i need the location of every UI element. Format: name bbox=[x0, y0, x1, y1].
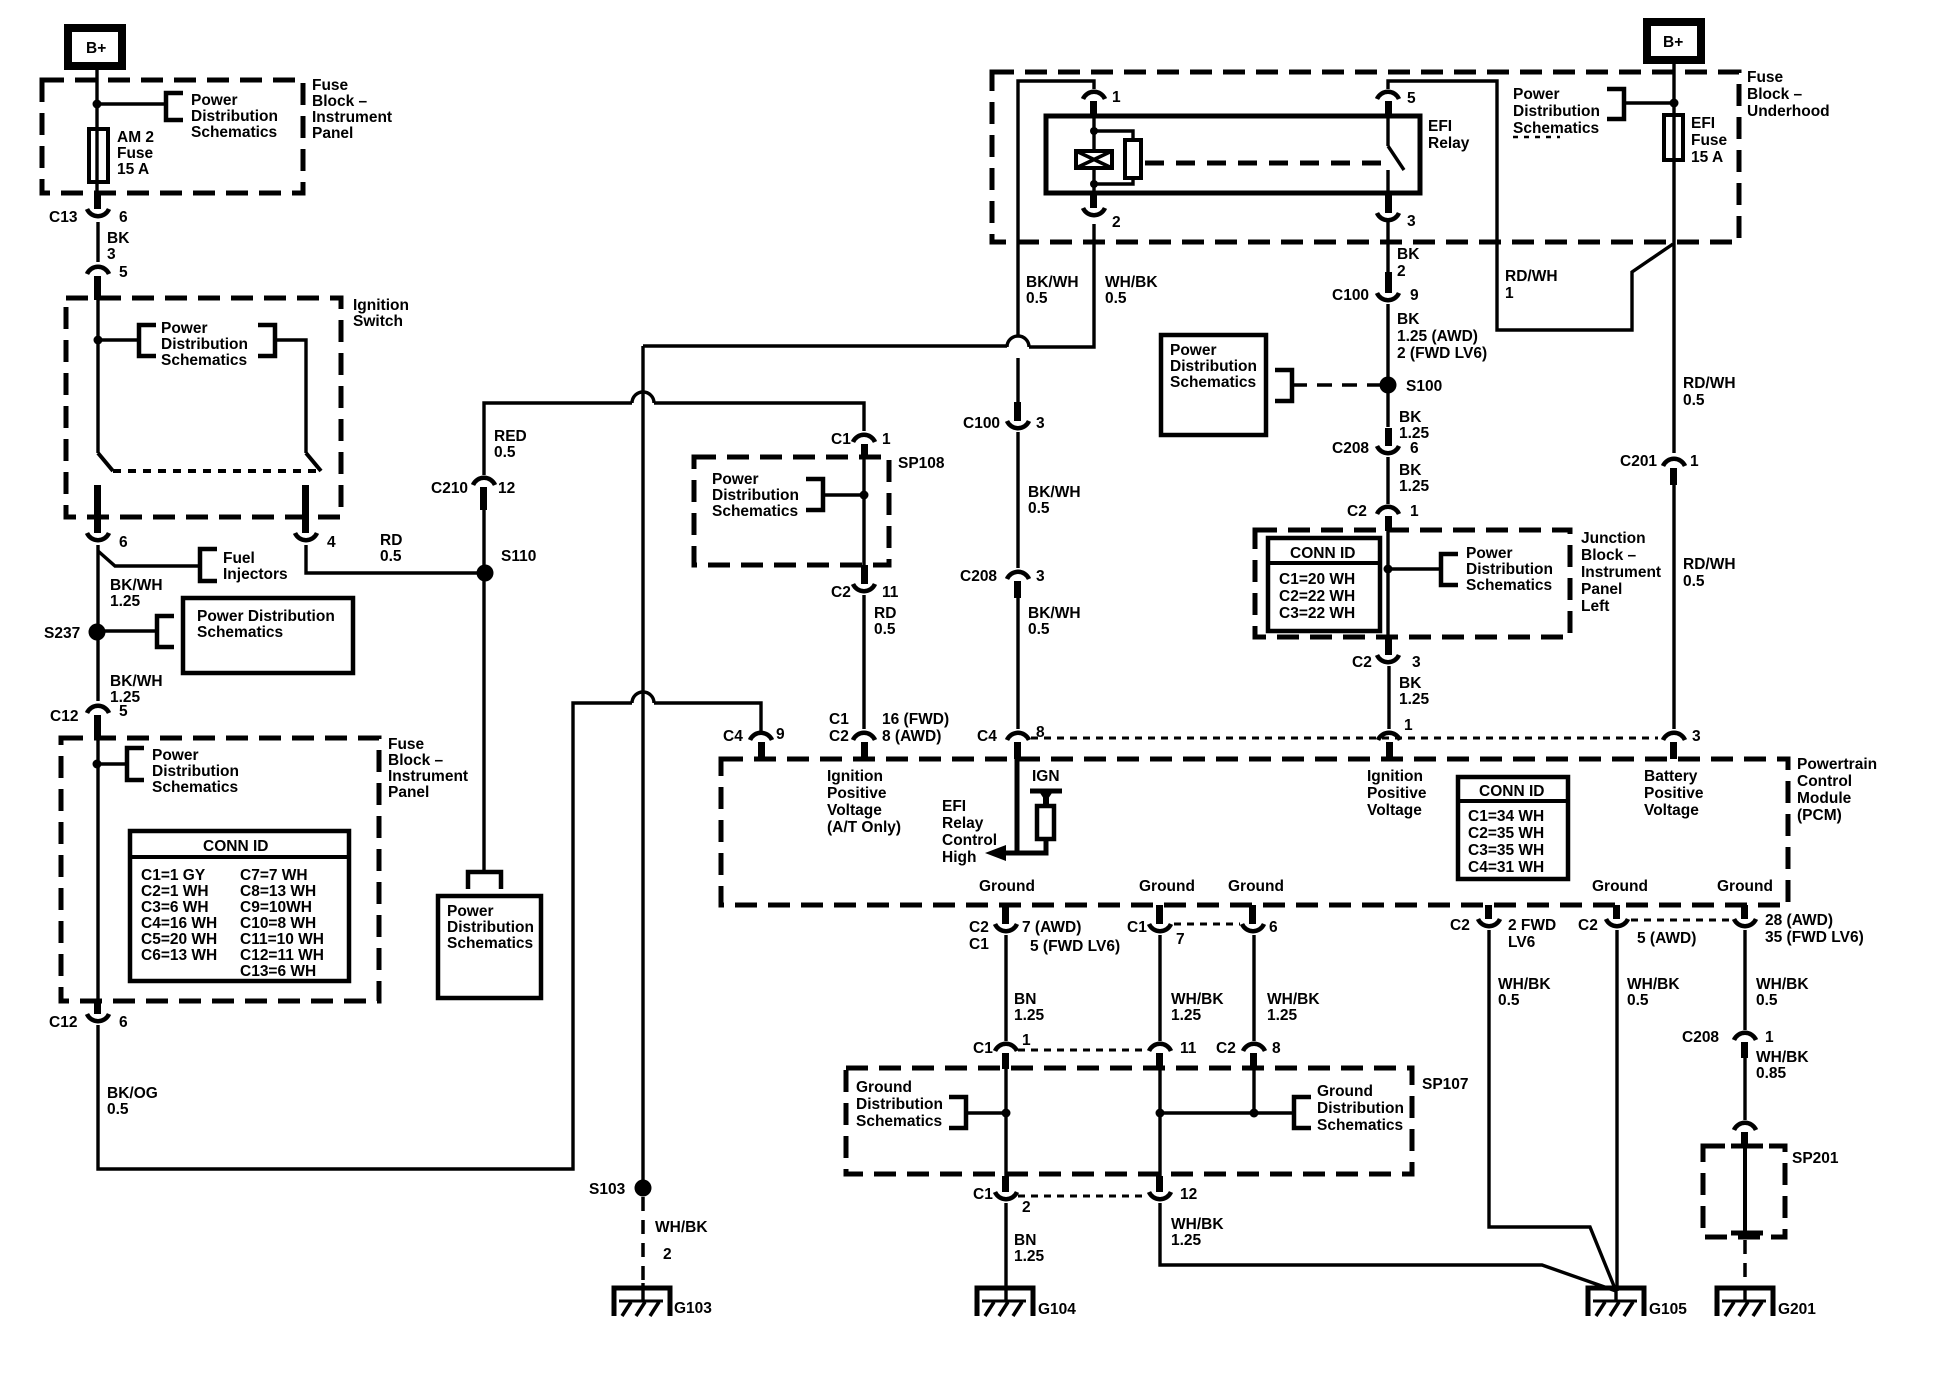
wire through junction block bbox=[1386, 530, 1389, 639]
wire to C4 pin 9 bbox=[654, 703, 761, 731]
svg-text:WH/BK: WH/BK bbox=[1756, 1049, 1809, 1066]
svg-text:Distribution: Distribution bbox=[1317, 1100, 1404, 1117]
svg-text:C2: C2 bbox=[1450, 917, 1470, 934]
svg-text:C1: C1 bbox=[831, 431, 851, 448]
wire C208-3 to C4-8 bbox=[1016, 596, 1019, 729]
wire BK/OG C12-6 to riser bbox=[98, 703, 632, 1169]
connector C4 pin 9 bbox=[723, 726, 785, 759]
ground G104 bbox=[977, 1288, 1076, 1318]
svg-text:BK: BK bbox=[1399, 675, 1422, 692]
svg-text:0.5: 0.5 bbox=[1756, 992, 1778, 1009]
svg-text:1: 1 bbox=[1112, 89, 1121, 106]
svg-text:C6=13 WH: C6=13 WH bbox=[141, 947, 217, 964]
svg-text:BK/WH: BK/WH bbox=[1026, 274, 1079, 291]
wire junction to bracket (lower fuse block) bbox=[97, 762, 127, 765]
svg-text:1.25: 1.25 bbox=[1399, 478, 1430, 495]
svg-text:Schematics: Schematics bbox=[191, 124, 277, 141]
junction dot SP107 right bbox=[1250, 1109, 1259, 1118]
svg-text:BK/WH: BK/WH bbox=[1028, 484, 1081, 501]
svg-text:Positive: Positive bbox=[1367, 785, 1427, 802]
wire into ignition switch bbox=[96, 298, 99, 453]
svg-text:Distribution: Distribution bbox=[447, 919, 534, 936]
svg-text:Voltage: Voltage bbox=[1367, 802, 1422, 819]
splice SP107 dashed box bbox=[846, 1068, 1412, 1174]
CONN ID table (PCM) bbox=[1458, 777, 1568, 879]
bracket left (ignition switch schematics) bbox=[139, 325, 156, 356]
switch common dotted line bbox=[113, 469, 322, 473]
svg-text:Fuse: Fuse bbox=[388, 736, 425, 753]
svg-text:Distribution: Distribution bbox=[856, 1096, 943, 1113]
relay switch blade bbox=[1388, 116, 1404, 193]
svg-text:0.5: 0.5 bbox=[1026, 290, 1048, 307]
svg-text:3: 3 bbox=[1692, 728, 1701, 745]
svg-text:C4: C4 bbox=[977, 728, 997, 745]
svg-text:(A/T Only): (A/T Only) bbox=[827, 819, 901, 836]
svg-text:1: 1 bbox=[1410, 503, 1419, 520]
svg-text:C1=1 GY: C1=1 GY bbox=[141, 867, 206, 884]
svg-text:S110: S110 bbox=[501, 548, 536, 565]
svg-text:C208: C208 bbox=[1332, 440, 1369, 457]
svg-text:C208: C208 bbox=[1682, 1029, 1719, 1046]
svg-text:Positive: Positive bbox=[1644, 785, 1704, 802]
svg-text:B+: B+ bbox=[1663, 34, 1683, 51]
powertrain control module dashed box bbox=[721, 759, 1788, 905]
svg-text:Power: Power bbox=[1170, 342, 1217, 359]
fuse block instrument panel dashed box (lower left) bbox=[61, 738, 379, 1001]
wire C4-8 pin into PCM bbox=[1015, 759, 1020, 855]
svg-text:5: 5 bbox=[1407, 90, 1416, 107]
wire resistor to signal line bbox=[1014, 839, 1046, 853]
connector C2 pin 3 (junction block out) bbox=[1352, 639, 1421, 671]
svg-text:Power: Power bbox=[447, 903, 494, 920]
connector relay pin 2 bbox=[1083, 193, 1121, 231]
svg-text:5: 5 bbox=[119, 703, 128, 720]
connector PCM ground C2/C1 7(AWD) 5(FWD LV6) bbox=[969, 905, 1120, 955]
wire RED top run C210 to SP108 C1 bbox=[484, 403, 632, 475]
connector C2 pin 8 (SP107 top) bbox=[1216, 1040, 1281, 1069]
relay body box bbox=[1046, 116, 1420, 193]
CONN ID table (junction block) bbox=[1268, 538, 1380, 631]
junction dot lower fuse block bbox=[93, 760, 102, 769]
svg-text:G104: G104 bbox=[1038, 1301, 1076, 1318]
svg-text:0.5: 0.5 bbox=[1028, 621, 1050, 638]
svg-text:Distribution: Distribution bbox=[161, 336, 248, 353]
wire C2-11 to PCM C1/C2 bbox=[862, 595, 865, 729]
svg-text:Power: Power bbox=[712, 471, 759, 488]
svg-text:RD/WH: RD/WH bbox=[1683, 556, 1736, 573]
svg-text:Ground: Ground bbox=[1139, 878, 1195, 895]
svg-text:0.5: 0.5 bbox=[107, 1101, 129, 1118]
svg-text:C1: C1 bbox=[829, 711, 849, 728]
svg-text:6: 6 bbox=[1410, 440, 1419, 457]
svg-text:Fuel: Fuel bbox=[223, 550, 255, 567]
node B+ (right battery feed) bbox=[1647, 22, 1701, 60]
svg-text:0.5: 0.5 bbox=[380, 548, 402, 565]
svg-text:Distribution: Distribution bbox=[152, 763, 239, 780]
svg-text:EFI: EFI bbox=[1691, 115, 1715, 132]
connector C2 pin 1 (junction block) bbox=[1347, 503, 1419, 531]
svg-text:BN: BN bbox=[1014, 1232, 1036, 1249]
wire bracket to junction (underhood) bbox=[1624, 101, 1674, 104]
svg-text:8: 8 bbox=[1272, 1040, 1281, 1057]
svg-text:C201: C201 bbox=[1620, 453, 1657, 470]
junction dot SP108 bbox=[860, 491, 869, 500]
connector relay pin 1 bbox=[1083, 89, 1121, 116]
svg-text:LV6: LV6 bbox=[1508, 934, 1536, 951]
wire 12 to G105 run bbox=[1160, 1203, 1616, 1291]
svg-text:C2=22 WH: C2=22 WH bbox=[1279, 588, 1355, 605]
svg-text:Panel: Panel bbox=[388, 784, 429, 801]
svg-text:C3=35 WH: C3=35 WH bbox=[1468, 842, 1544, 859]
svg-text:Ground: Ground bbox=[1592, 878, 1648, 895]
svg-text:Control: Control bbox=[1797, 773, 1852, 790]
svg-text:WH/BK: WH/BK bbox=[1267, 991, 1320, 1008]
svg-text:0.5: 0.5 bbox=[1028, 500, 1050, 517]
wire C208-6 to C2-1 bbox=[1386, 457, 1389, 504]
svg-text:0.5: 0.5 bbox=[874, 621, 896, 638]
connector C2 pin 11 (SP108 bottom) bbox=[831, 565, 899, 601]
svg-text:Panel: Panel bbox=[1581, 581, 1622, 598]
junction dot on B+ wire bbox=[93, 100, 102, 109]
svg-text:Control: Control bbox=[942, 832, 997, 849]
svg-text:Schematics: Schematics bbox=[712, 503, 798, 520]
junction dot ignition switch bbox=[94, 336, 103, 345]
stray dashes under schematics bbox=[1513, 136, 1560, 139]
wire C100-3 to C208-3 bbox=[1016, 432, 1019, 568]
svg-text:0.5: 0.5 bbox=[1498, 992, 1520, 1009]
junction dot underhood bbox=[1670, 99, 1679, 108]
connector pin 4 (ignition out) bbox=[295, 533, 336, 551]
svg-text:IGN: IGN bbox=[1032, 768, 1060, 785]
svg-text:1: 1 bbox=[1505, 285, 1514, 302]
connector C12 pin 5 bbox=[50, 703, 128, 739]
svg-text:C2: C2 bbox=[1352, 654, 1372, 671]
svg-text:S237: S237 bbox=[44, 625, 80, 642]
svg-text:Block –: Block – bbox=[1747, 86, 1803, 103]
wire EFI fuse down to C201 bbox=[1672, 160, 1675, 453]
wire S237 to C12-5 bbox=[96, 640, 99, 701]
svg-text:3: 3 bbox=[1407, 213, 1416, 230]
svg-text:C5=20 WH: C5=20 WH bbox=[141, 931, 217, 948]
svg-text:1: 1 bbox=[1022, 1032, 1031, 1049]
svg-text:0.5: 0.5 bbox=[1683, 392, 1705, 409]
connector C12 pin 6 bbox=[49, 1001, 128, 1031]
svg-text:C1: C1 bbox=[969, 936, 989, 953]
bracket schematics (lower fuse block) bbox=[127, 748, 144, 780]
svg-text:4: 4 bbox=[327, 534, 336, 551]
svg-text:16 (FWD): 16 (FWD) bbox=[882, 711, 949, 728]
svg-text:SP201: SP201 bbox=[1792, 1150, 1839, 1167]
svg-text:Distribution: Distribution bbox=[1170, 358, 1257, 375]
fuse EFI 15 A bbox=[1664, 115, 1683, 160]
svg-text:Schematics: Schematics bbox=[1466, 577, 1552, 594]
svg-text:Fuse: Fuse bbox=[1691, 132, 1728, 149]
svg-text:BK: BK bbox=[1397, 311, 1420, 328]
dotted link C1-2 to 12 (SP107) bbox=[1018, 1195, 1147, 1198]
wire C1-2 to G104 bbox=[1004, 1203, 1007, 1301]
svg-text:WH/BK: WH/BK bbox=[1105, 274, 1158, 291]
dotted link PCM top pins bbox=[1031, 737, 1658, 740]
svg-text:1.25: 1.25 bbox=[110, 593, 141, 610]
svg-text:S103: S103 bbox=[589, 1181, 626, 1198]
svg-text:12: 12 bbox=[1180, 1186, 1197, 1203]
connector C208 pin 3 bbox=[960, 568, 1045, 598]
svg-text:C2=35 WH: C2=35 WH bbox=[1468, 825, 1544, 842]
wire junction to bracket bbox=[97, 102, 166, 105]
svg-text:7: 7 bbox=[1176, 931, 1185, 948]
svg-text:C13=6 WH: C13=6 WH bbox=[240, 963, 316, 980]
wire junction to left bracket bbox=[98, 338, 141, 341]
svg-text:Schematics: Schematics bbox=[856, 1113, 942, 1130]
svg-text:Positive: Positive bbox=[827, 785, 887, 802]
wire C100-9 to S100 bbox=[1386, 304, 1389, 427]
ignition pin 6 stub bbox=[94, 485, 101, 533]
svg-text:C12=11 WH: C12=11 WH bbox=[240, 947, 324, 964]
node B+ (left battery feed) bbox=[68, 28, 122, 66]
svg-text:RD: RD bbox=[874, 605, 896, 622]
wire C208-1 to SP201 bbox=[1743, 1056, 1746, 1120]
wire ground pin to C1-1 (BN) bbox=[1004, 935, 1007, 1041]
wire SP107 internal bus bbox=[1160, 1111, 1294, 1114]
svg-text:C100: C100 bbox=[963, 415, 1000, 432]
CONN ID table (fuse block) bbox=[130, 831, 349, 981]
svg-text:Distribution: Distribution bbox=[712, 487, 799, 504]
svg-text:BK/WH: BK/WH bbox=[110, 577, 163, 594]
connector C1 pin 2 (SP107 bottom) bbox=[973, 1176, 1031, 1216]
svg-text:Battery: Battery bbox=[1644, 768, 1698, 785]
svg-text:C2: C2 bbox=[969, 919, 989, 936]
svg-text:WH/BK: WH/BK bbox=[1627, 976, 1680, 993]
wire C2-2FWD to G105 bbox=[1489, 930, 1616, 1291]
wire relay pin1 loop to BK/WH riser bbox=[1018, 81, 1094, 336]
svg-text:C1: C1 bbox=[1127, 919, 1147, 936]
svg-text:Distribution: Distribution bbox=[191, 108, 278, 125]
connector PCM ground C1 7 bbox=[1127, 905, 1185, 948]
svg-text:SP107: SP107 bbox=[1422, 1076, 1469, 1093]
svg-text:WH/BK: WH/BK bbox=[1756, 976, 1809, 993]
EFI relay / fuse block underhood dashed box bbox=[992, 72, 1739, 242]
svg-text:1: 1 bbox=[1765, 1029, 1774, 1046]
svg-text:9: 9 bbox=[776, 726, 785, 743]
svg-text:Ground: Ground bbox=[979, 878, 1035, 895]
svg-text:Relay: Relay bbox=[942, 815, 984, 832]
svg-text:BK: BK bbox=[1399, 462, 1422, 479]
svg-text:BK/OG: BK/OG bbox=[107, 1085, 158, 1102]
svg-text:Schematics: Schematics bbox=[161, 352, 247, 369]
wire relay pin3 to C100-9 bbox=[1386, 222, 1389, 287]
svg-text:1.25: 1.25 bbox=[1171, 1007, 1202, 1024]
svg-text:G103: G103 bbox=[674, 1300, 712, 1317]
wire through SP107 (left) bbox=[1004, 1068, 1007, 1176]
svg-text:Ignition: Ignition bbox=[353, 297, 409, 314]
connector C1 pin 1 (SP108 top) bbox=[831, 431, 891, 459]
wire dashed S103 to G103 bbox=[641, 1197, 645, 1283]
wire fuse to C13 bbox=[95, 182, 98, 193]
svg-text:3: 3 bbox=[1412, 654, 1421, 671]
svg-text:C8=13 WH: C8=13 WH bbox=[240, 883, 316, 900]
svg-text:C3=6 WH: C3=6 WH bbox=[141, 899, 209, 916]
svg-text:Voltage: Voltage bbox=[1644, 802, 1699, 819]
svg-text:2: 2 bbox=[663, 1246, 672, 1263]
svg-text:RED: RED bbox=[494, 428, 527, 445]
dotted link C1-1 to 11 (SP107) bbox=[1018, 1049, 1147, 1052]
splice S110 bbox=[477, 548, 537, 582]
svg-text:Switch: Switch bbox=[353, 313, 403, 330]
svg-text:Panel: Panel bbox=[312, 125, 353, 142]
svg-text:15 A: 15 A bbox=[1691, 149, 1723, 166]
svg-text:1.25: 1.25 bbox=[1399, 691, 1430, 708]
wire BK/WH riser below hop bbox=[1016, 358, 1019, 414]
bracket right (ignition switch schematics) bbox=[258, 325, 275, 356]
svg-text:1.25: 1.25 bbox=[1014, 1007, 1045, 1024]
switch blade right diagonal bbox=[306, 453, 321, 471]
svg-text:Schematics: Schematics bbox=[197, 624, 283, 641]
svg-text:Ignition: Ignition bbox=[827, 768, 883, 785]
connector pin 6 (ignition out) bbox=[87, 533, 128, 551]
bracket right SP107 bbox=[1294, 1097, 1311, 1128]
svg-text:Block –: Block – bbox=[1581, 547, 1637, 564]
connector C100 pin 3 bbox=[963, 402, 1045, 432]
wire relay pin5 to RD/WH riser bbox=[1388, 81, 1673, 330]
svg-text:C1: C1 bbox=[973, 1186, 993, 1203]
connector pin 12 (SP107 bottom) bbox=[1149, 1176, 1197, 1203]
svg-text:2: 2 bbox=[1397, 263, 1406, 280]
connector C208 pin 6 bbox=[1332, 428, 1419, 457]
svg-text:Injectors: Injectors bbox=[223, 566, 288, 583]
svg-text:Schematics: Schematics bbox=[447, 935, 533, 952]
wire B+ right down to EFI fuse bbox=[1672, 60, 1675, 115]
connector PCM pin 1 bbox=[1378, 717, 1413, 759]
wire hop over S103 line (RED run) bbox=[632, 392, 654, 403]
ground G103 bbox=[614, 1283, 712, 1317]
splice S103 bbox=[589, 1180, 652, 1199]
wire S237 to bracket bbox=[97, 629, 157, 632]
resistor (PCM pull-up) bbox=[1037, 806, 1054, 839]
svg-text:RD: RD bbox=[380, 532, 402, 549]
wire through lower fuse block bbox=[96, 738, 99, 1001]
svg-text:2 FWD: 2 FWD bbox=[1508, 917, 1556, 934]
svg-text:3: 3 bbox=[1036, 568, 1045, 585]
svg-text:Distribution: Distribution bbox=[1513, 103, 1600, 120]
wire dashed SP201 to G201 bbox=[1743, 1240, 1747, 1288]
svg-text:Fuse: Fuse bbox=[1747, 69, 1784, 86]
svg-text:SP108: SP108 bbox=[898, 455, 945, 472]
connector C210 pin 12 bbox=[431, 478, 515, 510]
wire S110 down to schematics box bbox=[482, 573, 485, 871]
connector PCM ground 6 bbox=[1242, 905, 1278, 936]
svg-text:0.85: 0.85 bbox=[1756, 1065, 1787, 1082]
splice SP108 dashed box bbox=[694, 457, 889, 565]
connector PCM ground 28(AWD) 35(FWD LV6) bbox=[1734, 905, 1864, 946]
svg-text:C4=16 WH: C4=16 WH bbox=[141, 915, 217, 932]
svg-text:Fuse: Fuse bbox=[312, 77, 349, 94]
svg-text:High: High bbox=[942, 849, 976, 866]
svg-text:CONN ID: CONN ID bbox=[1479, 783, 1544, 800]
wire branch to fuel injectors bbox=[98, 551, 200, 566]
connector relay pin 5 bbox=[1377, 90, 1416, 116]
junction dot (junction block) bbox=[1384, 565, 1393, 574]
bracket S100 schematics bbox=[1275, 370, 1292, 401]
svg-text:RD/WH: RD/WH bbox=[1505, 268, 1558, 285]
svg-text:5 (AWD): 5 (AWD) bbox=[1637, 930, 1696, 947]
connector C13 pin 6 bbox=[49, 193, 128, 226]
svg-text:Instrument: Instrument bbox=[312, 109, 392, 126]
wire RED run to C1 pin 1 bbox=[654, 403, 864, 431]
ignition switch dashed box bbox=[66, 298, 341, 517]
svg-text:Relay: Relay bbox=[1428, 135, 1470, 152]
svg-text:1.25: 1.25 bbox=[1014, 1248, 1045, 1265]
svg-text:2 (FWD LV6): 2 (FWD LV6) bbox=[1397, 345, 1487, 362]
svg-text:S100: S100 bbox=[1406, 378, 1442, 395]
connector PCM ground C2 5 (AWD) bbox=[1578, 905, 1696, 947]
svg-text:Ground: Ground bbox=[1717, 878, 1773, 895]
junction dot SP107 left bbox=[1002, 1109, 1011, 1118]
fuse block instrument panel dashed box (top left) bbox=[42, 80, 303, 193]
svg-text:C210: C210 bbox=[431, 480, 468, 497]
svg-text:2: 2 bbox=[1022, 1199, 1031, 1216]
svg-text:Ignition: Ignition bbox=[1367, 768, 1423, 785]
wire bracket to junction (SP108) bbox=[823, 493, 864, 496]
wire C210 to S110 bbox=[482, 508, 485, 571]
svg-text:C4=31 WH: C4=31 WH bbox=[1468, 859, 1544, 876]
wire hop over S103 line bbox=[632, 692, 654, 703]
svg-text:1: 1 bbox=[882, 431, 891, 448]
svg-text:11: 11 bbox=[1180, 1040, 1197, 1057]
svg-text:EFI: EFI bbox=[1428, 118, 1452, 135]
wire C2-3 to PCM pin 1 bbox=[1387, 666, 1390, 729]
box Power Distribution Schematics (S110) bbox=[438, 896, 541, 998]
svg-text:28 (AWD): 28 (AWD) bbox=[1765, 912, 1833, 929]
svg-text:11: 11 bbox=[882, 584, 899, 601]
bracket fuel injectors bbox=[200, 549, 217, 581]
svg-text:C1: C1 bbox=[973, 1040, 993, 1057]
svg-text:BK: BK bbox=[1399, 409, 1422, 426]
wire pin6 down to S237 bbox=[96, 545, 99, 632]
svg-text:0.5: 0.5 bbox=[494, 444, 516, 461]
svg-text:Powertrain: Powertrain bbox=[1797, 756, 1877, 773]
svg-text:Schematics: Schematics bbox=[1170, 374, 1256, 391]
ground G201 bbox=[1717, 1288, 1816, 1318]
junction dot SP107 mid bbox=[1156, 1109, 1165, 1118]
connector relay pin 3 bbox=[1377, 193, 1416, 230]
svg-text:C12: C12 bbox=[49, 1014, 77, 1031]
wire C201 to PCM pin 3 bbox=[1672, 483, 1675, 729]
bracket above S110 schematics box bbox=[468, 872, 501, 889]
svg-text:35 (FWD LV6): 35 (FWD LV6) bbox=[1765, 929, 1864, 946]
svg-text:Voltage: Voltage bbox=[827, 802, 882, 819]
svg-text:15 A: 15 A bbox=[117, 161, 149, 178]
relay armature bbox=[1125, 140, 1141, 178]
wire 28AWD pin to C208-1 bbox=[1743, 930, 1746, 1030]
svg-text:RD/WH: RD/WH bbox=[1683, 375, 1736, 392]
relay actuator dashed line bbox=[1145, 161, 1381, 166]
bracket S237 schematics bbox=[157, 616, 174, 647]
splice bar SP201 bbox=[1731, 1146, 1763, 1233]
svg-text:Underhood: Underhood bbox=[1747, 103, 1830, 120]
svg-text:Block –: Block – bbox=[312, 93, 368, 110]
svg-text:C2: C2 bbox=[829, 728, 849, 745]
connector pin 11 (SP107 top) bbox=[1149, 1040, 1197, 1069]
svg-text:C9=10WH: C9=10WH bbox=[240, 899, 312, 916]
svg-text:1.25: 1.25 bbox=[1267, 1007, 1298, 1024]
svg-text:G201: G201 bbox=[1778, 1301, 1816, 1318]
bracket junction block schematics bbox=[1441, 554, 1458, 585]
connector C4 pin 8 bbox=[977, 724, 1045, 759]
dotted link C2-5AWD to 28AWD bbox=[1631, 919, 1732, 922]
svg-text:Distribution: Distribution bbox=[1466, 561, 1553, 578]
svg-text:Ground: Ground bbox=[1317, 1083, 1373, 1100]
svg-text:BN: BN bbox=[1014, 991, 1036, 1008]
